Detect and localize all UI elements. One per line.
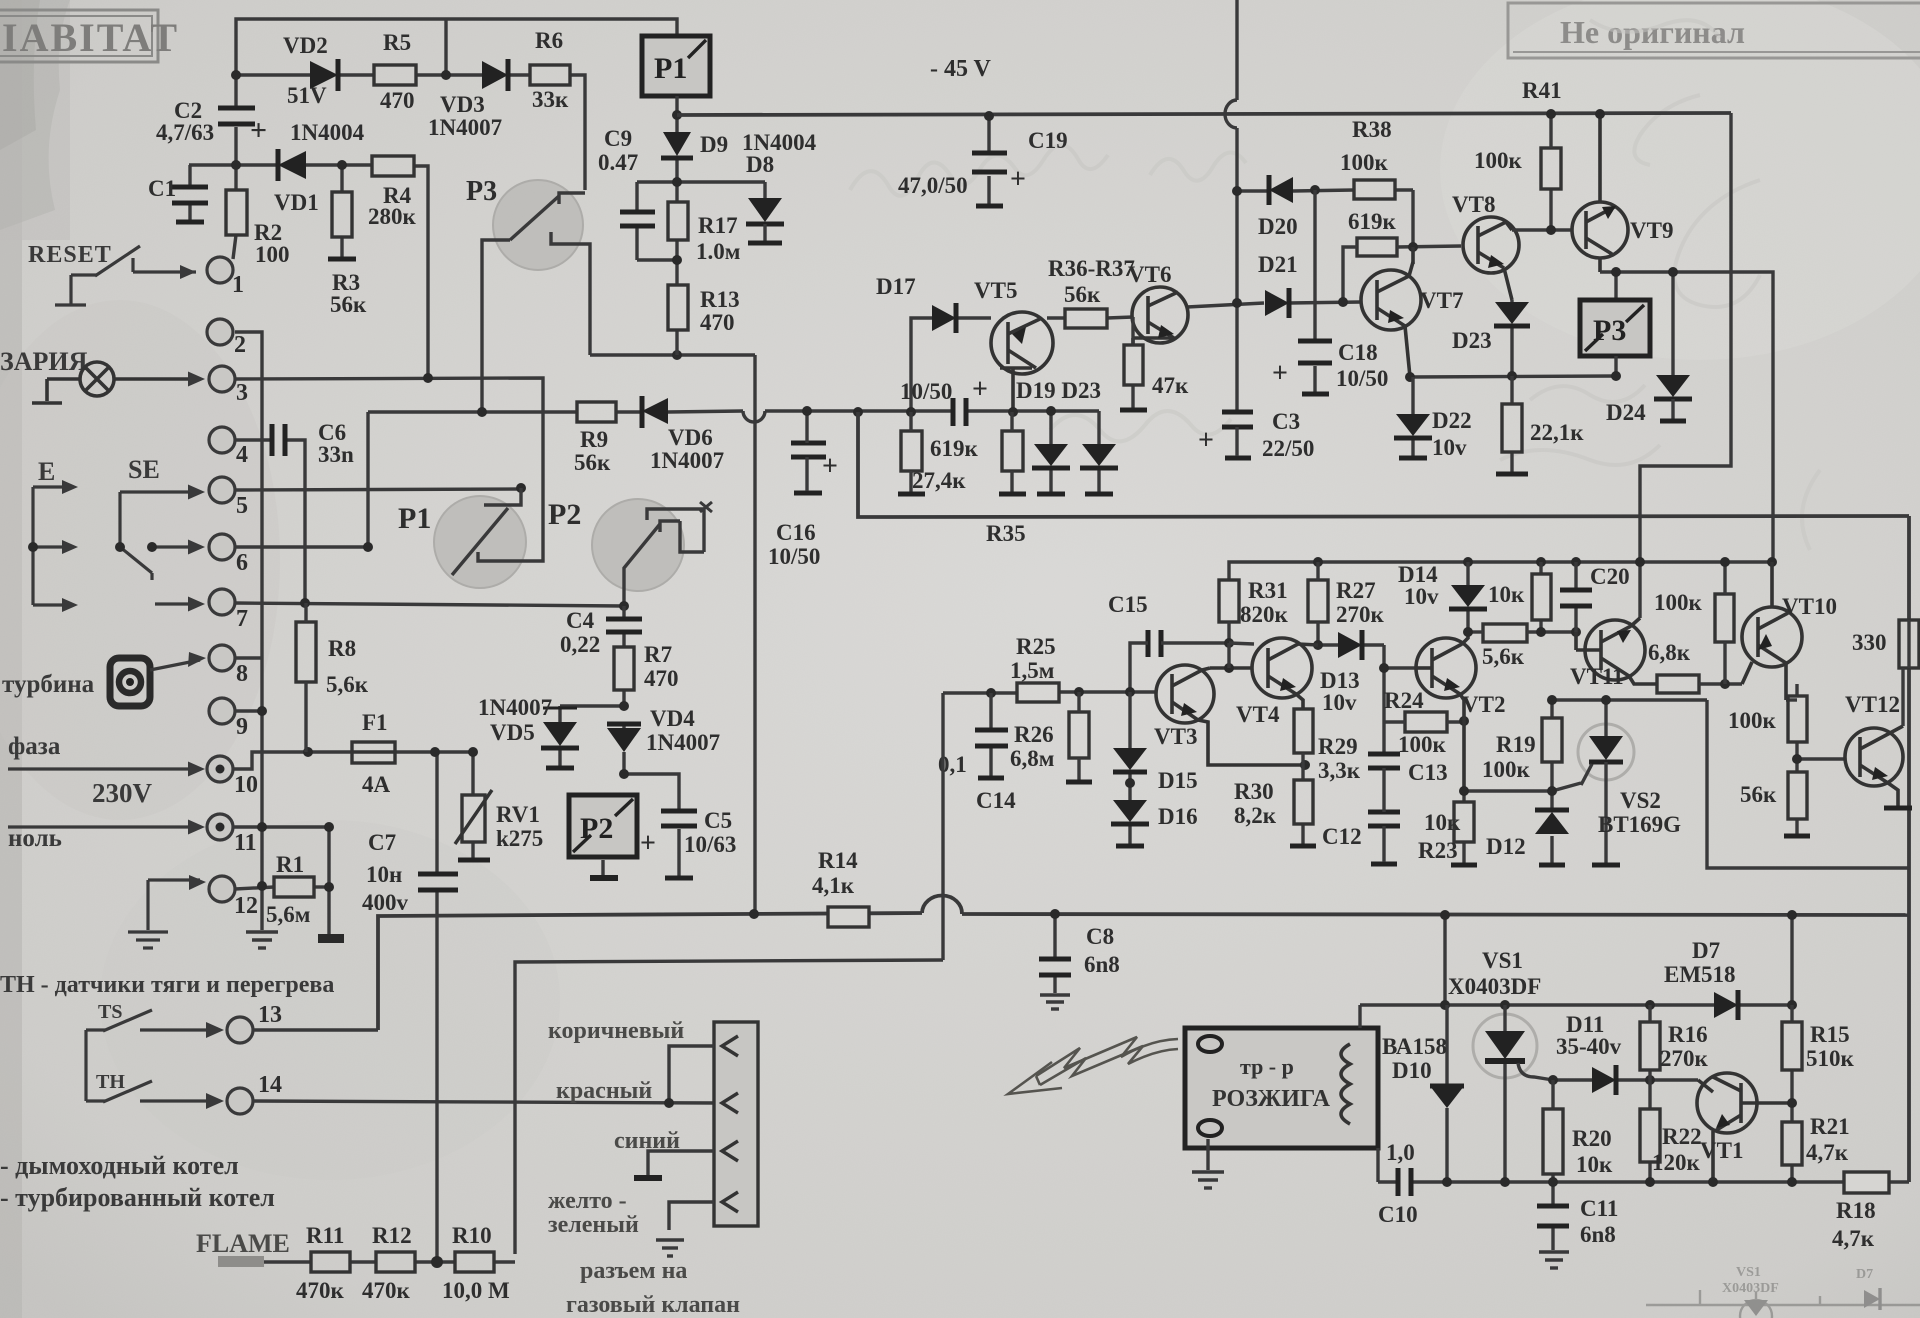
bottom rail (378, 895, 1909, 1030)
svg-text:1N4007: 1N4007 (478, 695, 552, 720)
terminal 14 (227, 1088, 253, 1114)
svg-text:RESET: RESET (28, 242, 112, 268)
junction (303, 747, 313, 757)
svg-text:VT4: VT4 (1236, 702, 1280, 727)
svg-text:3: 3 (236, 380, 248, 406)
D23 under VT8 (1510, 300, 1513, 376)
svg-text:D22: D22 (1432, 408, 1472, 433)
capacitor C19 (987, 116, 990, 204)
svg-text:VT8: VT8 (1452, 192, 1495, 217)
D15 D16 stack (1128, 692, 1131, 844)
junction (1440, 1000, 1450, 1010)
gas valve connector (714, 1022, 758, 1226)
resistor R9 (577, 402, 616, 422)
svg-text:P2: P2 (548, 498, 581, 531)
diode D9 (661, 132, 693, 158)
svg-text:230V: 230V (92, 778, 153, 808)
VT9 emitter row y=272 (1600, 272, 1773, 564)
capacitor C3 (1222, 412, 1253, 458)
junction (1611, 267, 1621, 277)
svg-text:+: + (1198, 425, 1214, 456)
svg-text:6n8: 6n8 (1580, 1222, 1616, 1247)
svg-text:C8: C8 (1086, 924, 1114, 949)
svg-text:51V: 51V (287, 83, 327, 108)
capacitor C1 (172, 187, 208, 222)
svg-text:VT2: VT2 (1462, 692, 1505, 717)
D10 (1445, 1005, 1448, 1182)
svg-text:R6: R6 (535, 28, 563, 53)
lightning arrow (1008, 1037, 1178, 1094)
svg-text:C1: C1 (148, 176, 176, 201)
svg-text:270к: 270к (1336, 602, 1385, 627)
svg-text:VD6: VD6 (668, 425, 713, 450)
wire terminal12 R1 row (235, 887, 274, 889)
C20 (1574, 562, 1577, 632)
R14 on bottom rail (828, 907, 869, 927)
svg-text:зеленый: зеленый (548, 1212, 639, 1238)
junction (441, 70, 451, 80)
svg-text:E: E (38, 457, 55, 486)
right border verticals (1907, 516, 1911, 1182)
svg-text:10v: 10v (1404, 584, 1439, 609)
terminal 1 (207, 257, 233, 283)
svg-text:R12: R12 (372, 1223, 412, 1248)
svg-text:D7: D7 (1856, 1267, 1873, 1282)
junction (1547, 786, 1557, 796)
top rail corner down + jog (1640, 113, 1731, 618)
R15 R21 column (1790, 1005, 1793, 1182)
svg-text:VS1: VS1 (1482, 948, 1523, 973)
junction (1125, 778, 1135, 788)
VT10 (1742, 562, 1802, 700)
5.6k resistor (1483, 624, 1527, 642)
svg-text:+: + (822, 451, 838, 482)
diode VD2 (310, 59, 338, 91)
svg-text:1,5м: 1,5м (1010, 658, 1054, 683)
svg-text:10к: 10к (1488, 582, 1525, 607)
junction (300, 598, 310, 608)
hop vertical x=1237 over -45V rail (1225, 0, 1237, 410)
TS switch into 13 (86, 1010, 218, 1101)
330 resistor right (1899, 620, 1919, 668)
resistor 619k (VT7 base) (1357, 238, 1397, 256)
svg-text:Р3: Р3 (466, 176, 497, 207)
VT8 collector to VT9 base (1512, 189, 1572, 230)
svg-text:D7: D7 (1692, 938, 1720, 963)
rail dots (1442, 1177, 1452, 1187)
D22 (1411, 377, 1414, 456)
reset switch (55, 246, 196, 305)
svg-text:k275: k275 (496, 826, 543, 851)
terminal 4 (209, 427, 235, 453)
arrow into 12 from ground (128, 880, 200, 948)
svg-text:5,6к: 5,6к (1482, 644, 1525, 669)
fuse F1 (352, 742, 395, 763)
svg-text:6: 6 (236, 550, 248, 576)
svg-text:56к: 56к (1064, 282, 1101, 307)
junction (619, 769, 629, 779)
svg-text:56к: 56к (1740, 782, 1777, 807)
junction (147, 542, 157, 552)
resistor R2 (226, 190, 247, 235)
svg-text:C10: C10 (1378, 1202, 1418, 1227)
junction (1224, 663, 1234, 673)
svg-text:VT6: VT6 (1128, 262, 1171, 287)
R20 (1551, 1080, 1554, 1182)
junction (1635, 557, 1645, 567)
capacitor C4 (606, 619, 642, 632)
svg-text:R5: R5 (383, 30, 411, 55)
svg-text:1.0м: 1.0м (696, 239, 740, 264)
capacitor C16 (791, 443, 826, 493)
junction (986, 688, 996, 698)
junction (115, 542, 125, 552)
relay P2 coil box (569, 795, 637, 857)
terminal 12 (209, 876, 235, 902)
svg-text:TS: TS (98, 1001, 122, 1023)
svg-text:12: 12 (234, 893, 258, 919)
VT11 (1576, 620, 1657, 684)
junction (1500, 1000, 1510, 1010)
svg-text:56к: 56к (330, 292, 367, 317)
junction (1548, 1177, 1558, 1187)
junction (1046, 406, 1056, 416)
svg-text:VT1: VT1 (1700, 1138, 1743, 1163)
junction (468, 747, 478, 757)
svg-text:VT9: VT9 (1630, 218, 1673, 243)
junction (423, 373, 433, 383)
relay switch P2 circle (624, 502, 712, 606)
svg-text:R30: R30 (1234, 779, 1274, 804)
wire D20 row (1237, 190, 1413, 247)
svg-text:коричневый: коричневый (548, 1018, 684, 1044)
resistor R1 (274, 877, 314, 897)
svg-text:R36-R37: R36-R37 (1048, 256, 1135, 281)
svg-text:ноль: ноль (8, 825, 62, 852)
svg-text:C14: C14 (976, 788, 1016, 813)
svg-text:1N4004: 1N4004 (290, 120, 365, 145)
svg-text:R1: R1 (276, 852, 304, 877)
capacitor C6 (272, 424, 285, 456)
svg-text:510к: 510к (1806, 1046, 1855, 1071)
svg-text:FLAME: FLAME (196, 1229, 290, 1258)
svg-text:D15: D15 (1158, 768, 1198, 793)
wire P1 box down to D9 (637, 96, 765, 355)
svg-text:D19 D23: D19 D23 (1016, 378, 1101, 403)
22.1k resistor (1510, 376, 1513, 472)
R30 (1294, 780, 1313, 824)
ground bars (1451, 863, 1477, 868)
wire VD2 row (236, 73, 310, 76)
svg-text:56к: 56к (574, 450, 611, 475)
svg-text:1N4007: 1N4007 (428, 115, 502, 140)
capacitor C18 (1313, 190, 1316, 392)
svg-text:C15: C15 (1108, 592, 1148, 617)
svg-text:+: + (640, 828, 656, 859)
47k resistor under VT6 (1131, 317, 1134, 408)
junction (1546, 225, 1556, 235)
resistor R38 100k (1354, 180, 1395, 199)
svg-text:- дымоходный котел: - дымоходный котел (0, 1151, 239, 1180)
svg-text:619к: 619к (1348, 209, 1397, 234)
thyristor VS2 (1581, 736, 1623, 791)
svg-text:470к: 470к (296, 1278, 345, 1303)
svg-text:VD1: VD1 (274, 190, 319, 215)
junction (672, 110, 682, 120)
R35 rail (858, 412, 1909, 517)
wire C15 left down to VT3 base row (1130, 643, 1148, 692)
svg-text:VT10: VT10 (1782, 594, 1837, 619)
junction (1232, 186, 1242, 196)
svg-text:7: 7 (236, 606, 248, 632)
wire P2 arm down C4 R7 (560, 606, 679, 876)
capacitor C2 (218, 108, 255, 124)
VT8 (1463, 217, 1519, 300)
alarm lamp (32, 362, 200, 403)
svg-text:P1: P1 (654, 52, 687, 85)
svg-text:5,6м: 5,6м (266, 902, 310, 927)
resistor R3 (332, 192, 352, 237)
svg-text:10/50: 10/50 (1336, 366, 1388, 391)
labels top-left (148, 28, 569, 317)
junction (1611, 371, 1621, 381)
svg-text:разъем на: разъем на (580, 1258, 687, 1284)
diode D13 (1338, 630, 1362, 660)
transistor VT6 (1132, 287, 1188, 345)
svg-text:R20: R20 (1572, 1126, 1612, 1151)
svg-text:R10: R10 (452, 1223, 492, 1248)
svg-text:VT3: VT3 (1154, 724, 1197, 749)
terminal 3 (209, 366, 235, 392)
arrow into 11 (8, 825, 200, 828)
terminal 6 (209, 534, 235, 560)
svg-text:VS1: VS1 (1736, 1265, 1761, 1280)
junction (430, 747, 440, 757)
svg-text:33n: 33n (318, 442, 354, 467)
junction (1547, 695, 1557, 705)
junction (324, 882, 334, 892)
junction (1379, 663, 1389, 673)
svg-text:VD5: VD5 (490, 720, 535, 745)
title box HABITAT (0, 10, 158, 62)
svg-text:R15: R15 (1810, 1022, 1850, 1047)
wire y=1080 with D11 (1553, 1078, 1698, 1081)
TH switch into 14 (86, 1081, 218, 1102)
svg-text:R27: R27 (1336, 578, 1376, 603)
svg-text:5,6к: 5,6к (326, 672, 369, 697)
VT1 (1697, 1073, 1792, 1182)
terminal 10 (207, 756, 233, 782)
R41 100k resistor (1541, 148, 1561, 189)
D19 D23 zeners (1051, 411, 1099, 492)
svg-text:10,0 М: 10,0 М (442, 1278, 510, 1303)
junction (1463, 557, 1473, 567)
svg-text:IABITAT: IABITAT (2, 15, 179, 60)
svg-text:X0403DF: X0403DF (1722, 1281, 1779, 1296)
svg-text:VD3: VD3 (440, 92, 485, 117)
svg-text:8,2к: 8,2к (1234, 803, 1277, 828)
junction (1125, 687, 1135, 697)
R19 (1542, 718, 1562, 762)
C10 series cap (1398, 1168, 1411, 1196)
VT9 (1572, 114, 1628, 272)
junction (1408, 242, 1418, 252)
svg-text:C5: C5 (704, 808, 732, 833)
junction (749, 909, 759, 919)
svg-text:120к: 120к (1652, 1150, 1701, 1175)
R29 (1294, 709, 1313, 753)
wire R3 column (340, 165, 343, 192)
junction dots (231, 70, 526, 892)
resistor R13 (668, 285, 688, 330)
wire VT6 base row y=303 (1187, 302, 1361, 307)
faint duplicate mini-schematic bottom right (1646, 1265, 1920, 1318)
svg-text:VT12: VT12 (1845, 692, 1900, 717)
svg-text:6,8к: 6,8к (1648, 640, 1691, 665)
svg-text:27,4к: 27,4к (912, 468, 966, 493)
svg-text:красный: красный (556, 1078, 652, 1104)
relay switch P3 circle (482, 193, 590, 412)
wire node row y=165 (189, 163, 276, 166)
junction (1536, 627, 1546, 637)
svg-text:470: 470 (644, 666, 679, 691)
svg-text:10: 10 (234, 772, 258, 798)
C15 (1148, 630, 1161, 657)
svg-text:0.47: 0.47 (598, 150, 638, 175)
svg-text:C19: C19 (1028, 128, 1068, 153)
diode D7 (1714, 990, 1738, 1020)
diode D20 (1269, 175, 1293, 205)
svg-text:D23: D23 (1452, 328, 1492, 353)
R25 (1017, 683, 1059, 702)
svg-text:100: 100 (255, 242, 290, 267)
svg-text:22/50: 22/50 (1262, 436, 1314, 461)
svg-text:4,7/63: 4,7/63 (156, 120, 214, 145)
junction (672, 177, 682, 187)
wire y=645 R27 to D13 to corner (1229, 643, 1416, 752)
ignition box bottom ground (1192, 1139, 1224, 1188)
vertical from VD2/VD3 node up to top wire (444, 19, 447, 75)
junction (1787, 1177, 1797, 1187)
svg-text:D10: D10 (1392, 1058, 1432, 1083)
wire x=943 below rail to y=962 (515, 693, 943, 1254)
arrow into 10 (8, 767, 200, 770)
svg-text:+: + (250, 114, 267, 147)
svg-text:R26: R26 (1014, 722, 1054, 747)
svg-text:C7: C7 (368, 830, 396, 855)
svg-text:X0403DF: X0403DF (1448, 974, 1541, 999)
R24 (1405, 712, 1447, 732)
ignition transformer box (1185, 1028, 1378, 1148)
diode VD3 (482, 59, 508, 91)
svg-text:1,0: 1,0 (1386, 1140, 1415, 1165)
svg-text:R21: R21 (1810, 1114, 1850, 1139)
D14 and 10k top (1468, 562, 1541, 632)
junction (1500, 1177, 1510, 1187)
svg-text:C4: C4 (566, 608, 595, 633)
svg-text:R14: R14 (818, 848, 858, 873)
wire C1 stub (188, 165, 191, 185)
junction (1008, 407, 1018, 417)
diode VD1 (278, 149, 306, 181)
junction (1313, 640, 1323, 650)
svg-text:R17: R17 (698, 213, 738, 238)
svg-text:C12: C12 (1322, 824, 1362, 849)
svg-text:турбина: турбина (2, 671, 95, 698)
junction (1787, 1000, 1797, 1010)
diode D8 zener (746, 198, 784, 243)
svg-text:ВА158: ВА158 (1382, 1034, 1447, 1059)
svg-text:ТН: ТН (96, 1071, 125, 1093)
svg-text:330: 330 (1852, 630, 1887, 655)
junction (1645, 1075, 1655, 1085)
svg-text:270к: 270к (1660, 1046, 1709, 1071)
svg-text:33к: 33к (532, 87, 569, 112)
svg-text:100к: 100к (1398, 732, 1447, 757)
R23 (1454, 802, 1474, 842)
svg-text:D9: D9 (700, 132, 728, 157)
VT2 (1416, 632, 1476, 791)
junction (619, 701, 629, 711)
svg-text:R19: R19 (1496, 732, 1536, 757)
junction (1787, 910, 1797, 920)
wire terminal3 row (236, 378, 543, 561)
svg-text:13: 13 (258, 1002, 282, 1028)
svg-text:8: 8 (236, 661, 248, 687)
junction (1708, 1177, 1718, 1187)
junction (324, 822, 334, 832)
resistor R6 (530, 65, 570, 85)
terminal 8 (209, 645, 235, 671)
junction (1536, 557, 1546, 567)
resistor R4 (372, 156, 414, 176)
svg-text:470: 470 (380, 88, 415, 113)
junction (664, 1098, 674, 1108)
svg-text:C3: C3 (1272, 409, 1300, 434)
SE switch into 5 and 6 (120, 492, 200, 580)
svg-text:10/63: 10/63 (684, 832, 736, 857)
C8 (1040, 914, 1070, 1009)
junction (1767, 557, 1777, 567)
svg-text:C13: C13 (1408, 760, 1448, 785)
junction (1792, 754, 1802, 764)
relay P1 coil box (642, 36, 710, 96)
junction (984, 111, 994, 121)
FLAME row (218, 1256, 264, 1267)
svg-text:3,3к: 3,3к (1318, 758, 1361, 783)
capacitor C7 (418, 874, 458, 890)
junction (1440, 910, 1450, 920)
svg-text:R31: R31 (1248, 578, 1288, 603)
svg-text:+: + (1272, 358, 1288, 389)
svg-text:280к: 280к (368, 204, 417, 229)
svg-text:синий: синий (614, 1128, 680, 1154)
svg-text:400v: 400v (362, 890, 409, 915)
diode D21 (1265, 288, 1289, 318)
svg-text:R23: R23 (1418, 838, 1458, 863)
capacitor C9 (620, 212, 655, 226)
transistor VT5 (991, 312, 1053, 410)
junction (1463, 627, 1473, 637)
svg-text:10/50: 10/50 (900, 379, 952, 404)
svg-text:R7: R7 (644, 642, 672, 667)
resistor R17 (668, 202, 688, 240)
junction (1548, 1075, 1558, 1085)
svg-text:9: 9 (236, 714, 248, 740)
svg-text:0,22: 0,22 (560, 632, 600, 657)
junction (231, 70, 241, 80)
svg-text:47,0/50: 47,0/50 (898, 173, 968, 198)
